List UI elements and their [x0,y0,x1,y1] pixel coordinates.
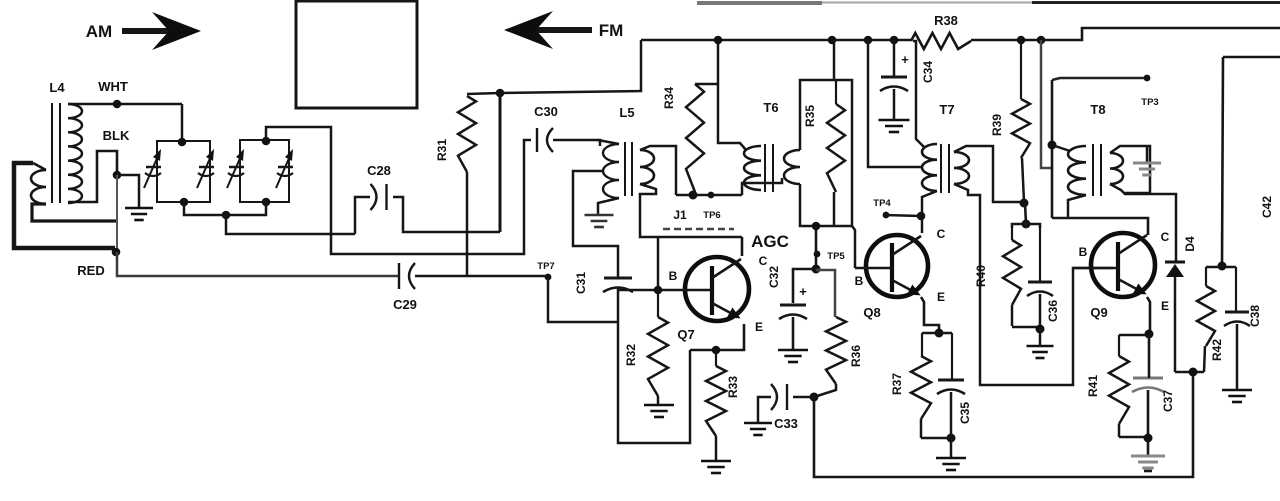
svg-text:TP3: TP3 [1141,97,1158,108]
wire R31 bottom to AGC bus [466,172,469,276]
test point TP5 dot [814,251,821,258]
wire T8 primary bottom [1068,195,1086,218]
wire R37 C35 bottom staple [921,437,952,440]
wire R40 C36 bottom staple [1012,326,1040,329]
svg-text:R31: R31 [435,139,449,161]
wire T8 to Q9 collector [1052,218,1148,235]
ground R32 [644,404,674,407]
node Q7 base dot [654,286,663,295]
node C33 junction [810,393,819,402]
wire bus to T8 [1041,40,1052,168]
wire C37 to ground [1147,438,1150,455]
ground R33 [701,460,731,463]
wire R42 C38 staple [1206,266,1236,269]
wire T7 secondary top [954,146,1024,202]
transistor Q7 [685,257,749,321]
transformer T6 secondary coil [784,150,800,184]
resistor R41 [1109,356,1129,424]
wire FM input [500,40,641,93]
node BLK dot [113,171,122,180]
ground C36 [1027,345,1054,348]
ground C34 [879,119,910,122]
svg-text:WHT: WHT [98,79,128,94]
FM arrow [535,27,592,33]
svg-text:AGC: AGC [751,232,789,251]
transformer T8 primary coil [1068,146,1086,195]
wire C33 right [793,396,814,399]
node Q8 emitter junction [935,329,944,338]
capacitor C34 [881,76,907,79]
wire C32 to ground [792,317,795,349]
transformer L5 primary coil [603,144,619,198]
resistor R38 [911,33,971,49]
transformer T7 primary coil [922,144,937,191]
svg-text:L4: L4 [49,80,65,95]
transformer L5 secondary coil [640,150,654,184]
wire AGC junction to C32 [793,269,816,303]
resistor R36 [826,317,846,384]
node R42 bottom dot [1189,368,1198,377]
svg-text:T6: T6 [763,100,778,115]
ground C38 [1222,389,1252,392]
ground L5 [585,214,614,217]
wire T8 secondary loop [1110,146,1150,193]
test point TP4 dot [883,212,890,219]
resistor R35 [827,104,845,192]
node bus dot T8 [1037,36,1046,45]
svg-text:R33: R33 [726,376,740,398]
svg-text:Q7: Q7 [677,327,694,342]
node bus dot T7 tap [864,36,873,45]
svg-text:Q8: Q8 [863,305,880,320]
wire T8 primary line [1051,80,1054,218]
wire L5 primary bottom [598,198,619,214]
svg-text:R40: R40 [974,265,988,287]
box top-left [296,1,417,108]
transformer L4 secondary coil [68,104,82,203]
wire TP7 to C31 line [548,277,618,322]
ground C35 [936,457,966,460]
svg-text:T8: T8 [1090,102,1105,117]
wire L5 secondary top to J1 [640,146,676,195]
svg-text:R39: R39 [990,114,1004,136]
svg-text:C28: C28 [367,163,391,178]
transformer T7 core [940,144,942,193]
node J1 dot [689,191,698,200]
capacitor C28 [385,184,387,210]
node gang2 top [262,137,271,146]
svg-text:B: B [855,274,864,288]
svg-text:TP5: TP5 [827,251,845,262]
transistor Q9 [1091,233,1155,297]
wire R34 top [695,83,718,86]
wire R37 C35 top staple [922,332,952,335]
wire L4 primary bottom [32,204,117,221]
svg-text:C42: C42 [1260,196,1274,218]
resistor R39 [1012,99,1030,158]
svg-text:C: C [1161,230,1170,244]
capacitor C32 [780,304,806,307]
resistor R40 [1003,240,1021,305]
wire gang2 top to C30 route [266,127,531,254]
capacitor C35 [938,379,964,382]
svg-text:R36: R36 [849,345,863,367]
svg-text:B: B [669,269,678,283]
ground L4 [125,207,153,210]
transformer L4 primary coil [31,170,46,204]
ground C33 [744,422,772,425]
node WHT dot [113,100,122,109]
svg-text:R34: R34 [662,87,676,109]
wire gang bottoms [184,202,266,215]
wire TP4 [886,215,921,216]
wire top bus right of R38 [971,39,1083,42]
wire Q7 base [618,289,712,292]
variable capacitor C-osc a [146,166,161,169]
svg-text:C30: C30 [534,104,558,119]
svg-text:C38: C38 [1248,305,1262,327]
node R37 bottom junction [947,434,956,443]
wire Q8 base [855,267,893,270]
svg-text:+: + [799,284,807,299]
wire top edge gray left [697,1,822,5]
wire R39 bottom to staple [1025,203,1026,224]
transformer T6 primary coil [744,146,761,190]
svg-text:J1: J1 [673,208,687,222]
wire AGC junction to R36 [816,270,835,317]
wire BLK to ground [117,175,139,207]
wire T6 loop to Q8 base [852,226,855,268]
svg-text:BLK: BLK [103,128,130,143]
svg-text:R42: R42 [1210,339,1224,361]
transformer T8 core [1092,144,1094,196]
node R40 C36 bottom dot [1036,325,1045,334]
antenna loop thick wire [14,163,115,248]
svg-text:TP6: TP6 [703,210,720,221]
node R39 bottom dot [1020,199,1029,208]
node gang bottom junction [222,211,231,220]
svg-text:C36: C36 [1046,300,1060,322]
node R35 bottom dot [812,222,821,231]
wire C34 to ground [893,89,896,119]
wire C36 junction to ground [1039,329,1042,345]
svg-text:R38: R38 [934,13,958,28]
node gang2 bottom [262,198,271,207]
wire T7 primary bottom to Q8 [922,191,937,233]
svg-text:C37: C37 [1161,390,1175,412]
wire bus to R35 loop [833,40,836,80]
svg-text:R35: R35 [803,105,817,127]
wire base drop [657,237,660,290]
svg-text:E: E [1161,299,1169,313]
capacitor C36 [1028,281,1052,284]
transformer L5 core [624,142,626,196]
capacitor C37 [1133,377,1163,380]
wire R40 C36 staple [1012,224,1040,228]
svg-text:AM: AM [86,22,112,41]
svg-text:R32: R32 [624,344,638,366]
wire RED bus [117,252,398,276]
wire R41 bottom staple [1119,436,1148,439]
wire D4 to R42 bottom [1175,371,1204,374]
wire Q9 emitter [1147,297,1150,334]
node AGC junction [812,265,821,274]
transformer T6 core [764,144,766,192]
wire FM node to R31 [467,93,500,94]
node gang1 top [178,138,187,147]
svg-text:C31: C31 [574,272,588,294]
svg-text:C35: C35 [958,402,972,424]
node Q9 emitter junction [1145,330,1154,339]
AM arrow [122,28,176,34]
wire gang bottom to C28 [226,215,355,234]
svg-text:RED: RED [77,263,104,278]
node bus dot C34 branch [890,36,899,45]
wire T8 primary top lead [1052,145,1070,151]
svg-text:C33: C33 [774,416,798,431]
variable capacitor C-osc b [199,166,214,169]
transistor Q8 [866,235,928,297]
wire top bus step up [1082,28,1280,41]
diode D4 [1165,261,1185,264]
svg-text:C29: C29 [393,297,417,312]
svg-text:L5: L5 [619,105,634,120]
transformer L4 core [51,103,53,203]
svg-text:FM: FM [599,21,624,40]
variable capacitor C-rf b [278,166,293,169]
node C37 bottom dot [1144,434,1153,443]
svg-text:C: C [937,227,946,241]
wire L4 top to WHT [68,103,182,106]
wire C30 right to L5 [553,140,600,146]
node Q7 emitter dot [712,346,721,355]
node bus dot R39 [1017,36,1026,45]
wire top bus FM line [641,39,911,42]
variable capacitor C-rf a [229,166,244,169]
svg-text:D4: D4 [1183,236,1197,252]
wire R35 bottom to AGC junction [815,226,818,269]
node R42 top dot [1218,262,1227,271]
wire L5 secondary bottom [640,184,742,237]
svg-text:R41: R41 [1086,375,1100,397]
wire Q7 collector [741,237,744,256]
wire C35 to ground [950,438,953,457]
wire bottom bus [814,372,1193,477]
svg-text:TP7: TP7 [537,261,554,272]
wire C33 left to ground [758,397,771,422]
wire C28 node up to FM node [499,94,502,232]
node T8 primary dot [1048,141,1057,150]
transformer T8 secondary coil [1110,153,1123,184]
box right edge [1223,56,1280,59]
capacitor C30 [536,128,538,152]
svg-text:Q9: Q9 [1090,305,1107,320]
capacitor C38 [1225,311,1249,314]
capacitor C31 [604,277,632,280]
wire C28 left [355,197,370,234]
test point TP3 dot [1144,75,1151,82]
resistor R32 [648,317,668,396]
wire R36 bottom [814,384,836,397]
capacitor C33 [786,384,788,410]
svg-text:+: + [901,52,909,67]
resistor R31 [458,96,476,172]
tuning gang box 2 [240,140,289,202]
wire bus to T7 primary [913,41,924,147]
wire TP3 line [1052,78,1145,80]
svg-text:C: C [759,254,768,268]
capacitor C29 [398,263,400,289]
ground T8 gray [1133,162,1161,165]
resistor R42 [1197,286,1215,346]
wire Q7 emitter [690,324,744,350]
node bus dot R35 [828,36,837,45]
svg-text:R37: R37 [890,373,904,395]
svg-text:TP4: TP4 [873,198,891,209]
svg-text:C32: C32 [767,266,781,288]
node bus dot T6 [714,36,723,45]
wire BLK node down to RED node [116,175,118,253]
node staple top dot [1022,220,1031,229]
wire top edge gray mid [822,1,1032,3]
wire bus to T6 [718,40,746,150]
test point TP7 dot [545,274,552,281]
node TP6 dot [708,192,715,199]
node RED dot [112,248,121,257]
wire WHT to gang1 [181,104,184,142]
wire R34 bottom [693,192,696,195]
wire T8 secondary bottom [1110,184,1176,261]
wire T7 tap [868,40,922,167]
svg-text:T7: T7 [939,102,954,117]
node TP4 junction [917,212,926,221]
wire Q9 base [1073,267,1119,270]
wire J1 line [676,194,742,197]
wire Q8 emitter [921,297,939,333]
wire L5 tap to C31 [573,171,618,278]
svg-text:E: E [937,290,945,304]
wire C28 right [393,197,500,232]
node FM junction [496,89,505,98]
wire T7 secondary bottom [954,184,1113,385]
tuning gang box 1 [157,141,210,202]
wire J1 to T6 secondary bottom [742,178,782,195]
wire BLK tap [68,151,117,202]
svg-text:C34: C34 [921,61,935,83]
svg-text:E: E [755,320,763,334]
resistor R34 [686,84,704,192]
wire emitter loop to C31 line [618,288,690,443]
transformer T7 secondary coil [954,152,969,184]
resistor R37 [911,356,931,419]
node gang1 bottom [180,198,189,207]
wire R35 loop [800,80,852,226]
ground C37 gray [1131,455,1165,458]
wire RED bus right of C29 [415,275,548,278]
svg-text:B: B [1079,245,1088,259]
jumper J1 dashed [663,228,734,231]
resistor R33 [706,366,726,436]
wire R41 top staple [1119,334,1149,337]
ground C32 [778,349,808,352]
wire top edge right segment [1032,1,1280,4]
